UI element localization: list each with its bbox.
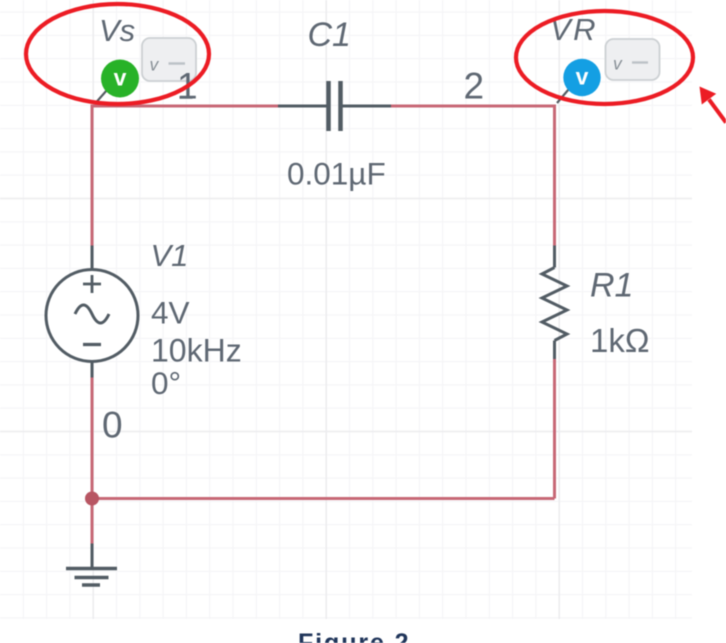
svg-text:10kHz: 10kHz: [151, 333, 242, 369]
svg-text:Figure 2: Figure 2: [298, 629, 410, 643]
svg-text:0: 0: [102, 405, 123, 446]
svg-text:v: v: [150, 55, 160, 75]
svg-text:v: v: [576, 64, 589, 90]
svg-text:R1: R1: [590, 267, 633, 305]
svg-text:2: 2: [464, 66, 485, 107]
svg-text:Vs: Vs: [99, 13, 135, 48]
svg-text:v: v: [613, 54, 623, 74]
svg-text:4V: 4V: [151, 295, 190, 331]
svg-text:C1: C1: [308, 16, 351, 54]
svg-text:v: v: [114, 65, 127, 91]
svg-text:V1: V1: [151, 238, 189, 273]
svg-text:0.01µF: 0.01µF: [287, 156, 386, 192]
svg-text:1kΩ: 1kΩ: [590, 322, 650, 359]
svg-text:0°: 0°: [151, 365, 181, 401]
